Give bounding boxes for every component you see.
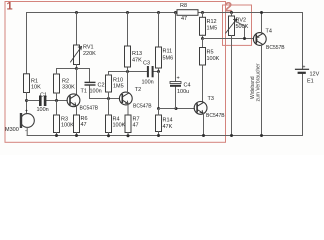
svg-text:BC557B: BC557B	[266, 45, 285, 51]
red frame box 2	[223, 5, 252, 45]
transistor T3	[194, 102, 207, 115]
svg-text:220K: 220K	[83, 51, 96, 57]
svg-text:T1: T1	[81, 88, 87, 94]
svg-text:330K: 330K	[62, 85, 75, 91]
wire: left vertical from rail to R1	[26, 13, 28, 74]
svg-text:47: 47	[133, 123, 139, 129]
svg-text:R11: R11	[163, 49, 173, 55]
svg-text:+: +	[25, 109, 28, 115]
svg-text:+: +	[303, 64, 306, 70]
svg-text:R13: R13	[132, 51, 142, 57]
wire: R5 bottom to T3 collector	[202, 65, 204, 102]
wire: RV1 bottom to node	[76, 65, 78, 69]
svg-text:C2: C2	[98, 82, 105, 88]
wire: R2 top to collector node	[57, 69, 77, 75]
svg-text:C4: C4	[184, 83, 191, 89]
node: T1 collector junction	[75, 67, 78, 70]
svg-text:47: 47	[181, 16, 187, 22]
svg-text:R12: R12	[207, 19, 217, 25]
resistor R2	[54, 74, 60, 93]
svg-text:47K: 47K	[163, 124, 173, 130]
node: mic/C1/R1 junction	[25, 99, 28, 102]
svg-text:100K: 100K	[113, 123, 126, 129]
node: T2 base junction	[107, 97, 110, 100]
resistor R1	[24, 74, 30, 93]
resistor R10	[106, 75, 112, 92]
wire: R11 node down to T3 base node	[158, 72, 160, 109]
wire: bottom ground rail	[27, 135, 302, 137]
svg-text:R8: R8	[180, 3, 187, 9]
svg-text:C1: C1	[40, 93, 47, 99]
wire: R2 bottom to base node	[56, 93, 58, 101]
resistor R6	[74, 115, 80, 133]
svg-text:M300: M300	[5, 127, 19, 133]
wire: T4 emitter to rail	[261, 13, 263, 34]
capacitor C3	[147, 66, 149, 77]
svg-text:1M5: 1M5	[113, 84, 124, 90]
svg-text:T3: T3	[208, 96, 214, 102]
resistor R8	[177, 10, 198, 16]
battery E1	[296, 68, 309, 70]
wire: T4 base wire	[203, 38, 254, 40]
transistor T2	[119, 92, 132, 105]
capacitor C1	[27, 100, 68, 102]
svg-text:T4: T4	[266, 28, 272, 34]
svg-text:12V: 12V	[310, 72, 320, 78]
svg-text:BC547B: BC547B	[80, 105, 99, 111]
resistor R4	[106, 115, 112, 133]
svg-text:5M6: 5M6	[163, 56, 174, 62]
wire: R3 leads	[56, 101, 58, 136]
wire: mic bottom to ground rail	[26, 127, 28, 135]
trimmer RV1	[75, 11, 78, 14]
resistor R3	[54, 115, 60, 133]
svg-text:100K: 100K	[207, 56, 220, 62]
wire: right vertical rail to battery	[302, 13, 304, 136]
wire: T1 emitter to R6	[76, 106, 78, 115]
wire: T1 collector	[76, 69, 78, 95]
wire: T2 collector	[127, 72, 129, 93]
svg-text:100n: 100n	[142, 80, 154, 86]
resistor R14	[156, 115, 162, 132]
red frame box 1	[5, 2, 226, 143]
wire: T2 base wire	[90, 98, 120, 100]
resistor R11	[157, 11, 160, 14]
svg-text:BC547B: BC547B	[133, 103, 152, 109]
microphone M300	[21, 114, 35, 128]
svg-text:R14: R14	[163, 118, 173, 124]
wire: T2 emitter to R7	[127, 104, 129, 115]
node: T1 base junction	[55, 99, 58, 102]
transistor T1	[67, 94, 80, 107]
svg-text:100n: 100n	[90, 89, 102, 95]
wire: R1 bottom to mic node	[26, 93, 28, 114]
resistor R7	[125, 115, 131, 133]
svg-text:RV1: RV1	[83, 45, 94, 51]
svg-text:10K: 10K	[31, 85, 41, 91]
svg-text:100K: 100K	[61, 123, 74, 129]
svg-text:E1: E1	[307, 79, 314, 85]
svg-text:R5: R5	[207, 50, 214, 56]
svg-text:zum Verbraucher: zum Verbraucher	[256, 63, 262, 101]
svg-text:C3: C3	[143, 61, 150, 67]
capacitor C2	[77, 69, 90, 99]
resistor R12	[202, 13, 204, 18]
svg-text:1: 1	[7, 1, 13, 13]
potentiometer RV2	[230, 11, 233, 14]
wire: RV2 wiper to base node	[236, 22, 245, 39]
wire: T3 emitter to ground	[203, 113, 205, 135]
svg-text:47K: 47K	[132, 58, 142, 64]
wire: T4 collector output to ground rail	[261, 45, 263, 136]
wire: T2 collector node rail y=72	[109, 71, 159, 73]
svg-text:100n: 100n	[37, 107, 49, 113]
capacitor C4 electrolytic	[174, 11, 177, 14]
svg-text:47: 47	[81, 122, 87, 128]
svg-text:1M5: 1M5	[207, 26, 218, 32]
wire: T3 base wire	[159, 108, 195, 110]
node: R12/R5/T4 base junction	[201, 37, 204, 40]
svg-text:+: +	[177, 76, 180, 82]
wire: RV2 bottom to ground rail	[231, 36, 233, 136]
wire: top supply rail	[27, 12, 303, 14]
resistor R5	[202, 39, 204, 48]
svg-text:T2: T2	[135, 87, 141, 93]
svg-text:100u: 100u	[177, 89, 189, 95]
svg-text:BC547B: BC547B	[206, 113, 225, 119]
resistor R13	[126, 11, 129, 14]
transistor T4 PNP	[253, 33, 266, 46]
